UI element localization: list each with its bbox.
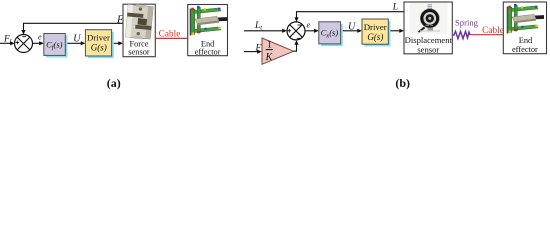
wire feedback (a) — [24, 23, 124, 30]
wire cable (a) — [155, 37, 187, 39]
svg-text:Spring: Spring — [455, 18, 479, 28]
svg-text:1: 1 — [267, 40, 272, 51]
plus sign left sector (b) — [288, 29, 292, 33]
wire Lt input — [244, 30, 283, 32]
displacement sensor encoder image — [410, 3, 448, 34]
controller block Cx(s) — [319, 22, 343, 46]
summing junction (a) — [15, 35, 33, 53]
minus sign top sector (a) — [22, 36, 26, 38]
spring symbol — [453, 31, 470, 38]
end effector image (a) — [190, 6, 227, 36]
wire Ft input — [0, 42, 11, 44]
summing junction (b) — [287, 22, 305, 40]
svg-text:Cf(s): Cf(s) — [46, 40, 63, 52]
svg-text:G(s): G(s) — [367, 32, 383, 42]
minus sign bottom sector (b) — [297, 37, 301, 39]
svg-text:sensor: sensor — [128, 48, 150, 57]
wire cable (b) — [470, 34, 503, 36]
svg-text:Displacement: Displacement — [405, 35, 453, 45]
wire sum to Cf — [32, 42, 39, 44]
svg-text:sensor: sensor — [417, 45, 439, 55]
wire driver to force sensor — [114, 42, 119, 44]
wire feedback (b) — [297, 12, 405, 18]
end effector image (b) — [507, 4, 544, 34]
svg-text:e: e — [307, 21, 311, 30]
wire driver to displacement sensor — [391, 30, 400, 32]
controller block Cf(s) — [44, 34, 68, 58]
svg-text:effector: effector — [512, 45, 538, 54]
svg-text:e: e — [38, 32, 42, 41]
svg-text:End: End — [519, 36, 533, 45]
force sensor box — [123, 4, 155, 57]
svg-text:(b): (b) — [395, 76, 410, 90]
svg-text:effector: effector — [195, 47, 221, 56]
end effector box (b) — [503, 2, 546, 54]
wire Cx to driver — [343, 30, 358, 32]
wire Cf to driver — [68, 42, 82, 44]
driver block G(s) (a) — [85, 30, 113, 58]
wire Ft input (b) — [244, 51, 258, 53]
svg-text:(a): (a) — [107, 76, 121, 90]
driver block G(s) (b) — [362, 19, 391, 46]
displacement sensor box — [404, 2, 452, 54]
wire gain to sum — [294, 44, 297, 51]
minus sign top sector (b) — [298, 24, 302, 26]
svg-text:G(s): G(s) — [91, 42, 107, 52]
svg-text:Cx(s): Cx(s) — [321, 28, 339, 40]
svg-text:Driver: Driver — [364, 22, 387, 32]
force sensor load cell image — [125, 3, 153, 40]
svg-text:K: K — [265, 52, 274, 63]
gain block 1/K — [262, 38, 294, 64]
end effector box (a) — [188, 5, 228, 56]
plus sign left sector (a) — [16, 41, 20, 45]
svg-text:L: L — [392, 3, 398, 13]
svg-text:Driver: Driver — [87, 32, 110, 42]
wire sum to Cx — [305, 30, 315, 32]
